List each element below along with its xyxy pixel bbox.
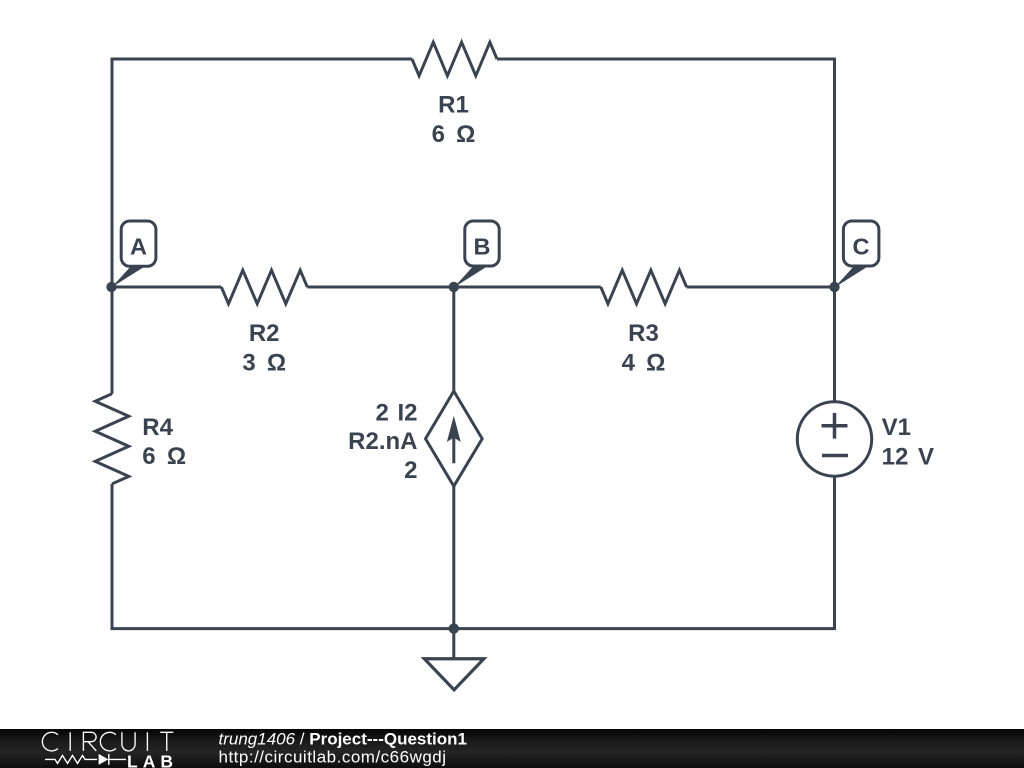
node B pointer wedge (454, 267, 487, 288)
voltage source V1 minus sign (822, 454, 848, 458)
current source I1 arrow (447, 416, 461, 464)
svg-text:2 I2: 2 I2 (375, 400, 417, 427)
CircuitLab logo CIRCUIT text (42, 732, 173, 751)
svg-text:R1: R1 (438, 92, 469, 119)
wire top-right segment (497, 59, 835, 287)
svg-text:3 Ω: 3 Ω (242, 349, 286, 376)
wire node C to V1 (833, 287, 836, 401)
current source I1 diamond (426, 391, 483, 486)
node A pointer wedge (112, 267, 145, 288)
svg-text:R4: R4 (142, 414, 173, 441)
wire R3 to node C (687, 286, 835, 289)
svg-text:6 Ω: 6 Ω (142, 443, 186, 470)
svg-text:12 V: 12 V (882, 443, 934, 470)
svg-text:4 Ω: 4 Ω (622, 349, 666, 376)
wire node B to current source (452, 287, 455, 391)
node C label box (843, 221, 879, 266)
node A junction dot (106, 282, 116, 292)
svg-text:http://circuitlab.com/c66wgdj: http://circuitlab.com/c66wgdj (219, 747, 447, 766)
wire top-left segment (112, 59, 412, 287)
wire ground stub (452, 629, 455, 659)
svg-text:A: A (130, 233, 147, 259)
node B label box (465, 221, 499, 266)
svg-text:B: B (474, 233, 491, 259)
ground symbol (424, 659, 484, 690)
resistor R3 (601, 270, 687, 304)
wire node B to R3 (454, 286, 601, 289)
node A label box (121, 221, 156, 266)
svg-text:R2: R2 (249, 320, 280, 347)
ground junction dot (449, 623, 459, 633)
wire node A to R2 (112, 286, 221, 289)
CircuitLab logo wire with resistor and diode (45, 754, 126, 765)
wire node A to R4 (111, 287, 114, 394)
svg-text:LAB: LAB (127, 751, 178, 768)
svg-text:V1: V1 (882, 414, 911, 441)
svg-text:R3: R3 (628, 320, 659, 347)
node B junction dot (449, 282, 459, 292)
svg-text:R2.nA: R2.nA (348, 428, 417, 455)
node C junction dot (829, 282, 839, 292)
voltage source V1 plus sign (822, 413, 848, 439)
svg-text:trung1406 / Project---Question: trung1406 / Project---Question1 (219, 729, 468, 748)
svg-text:C: C (853, 233, 870, 259)
wire bottom-right segment (454, 477, 835, 628)
wire R2 to node B (307, 286, 454, 289)
resistor R4 (95, 394, 129, 484)
voltage source V1 circle (797, 402, 871, 476)
node C pointer wedge (835, 267, 868, 288)
svg-text:6 Ω: 6 Ω (432, 121, 476, 148)
resistor R1 (412, 42, 497, 76)
wire R4 to bottom-left corner (112, 484, 454, 629)
resistor R2 (221, 270, 307, 304)
wire current source to bottom (452, 486, 455, 628)
svg-text:2: 2 (404, 457, 417, 484)
